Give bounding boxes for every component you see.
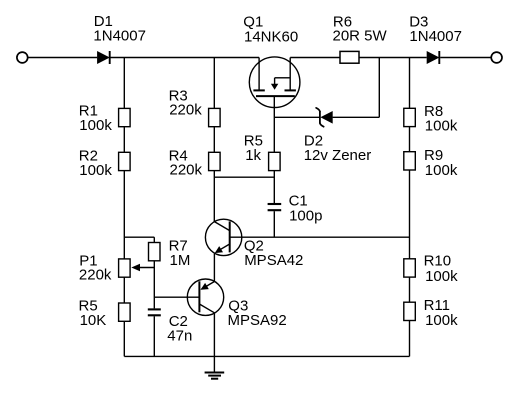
resistor R8: [404, 108, 416, 126]
diode D3: [427, 51, 440, 64]
resistor R3: [209, 108, 221, 126]
resistor R1: [119, 108, 131, 126]
svg-text:100k: 100k: [79, 117, 112, 134]
svg-text:100k: 100k: [79, 162, 112, 179]
capacitor C1: [268, 204, 282, 210]
resistor R7: [149, 243, 161, 261]
svg-text:MPSA92: MPSA92: [228, 312, 287, 329]
bottom rail wire: [124, 355, 409, 357]
svg-text:10K: 10K: [80, 312, 107, 329]
svg-text:220k: 220k: [79, 267, 112, 284]
wire rail to left column: [123, 58, 125, 109]
wire D2 anode to riser: [333, 116, 380, 118]
svg-text:12v Zener: 12v Zener: [304, 147, 372, 164]
wiper wire P1: [138, 267, 154, 269]
svg-text:20R 5W: 20R 5W: [333, 28, 388, 45]
resistor R11: [404, 302, 416, 320]
wire Q2 emitter to Q3 emitter: [213, 254, 215, 282]
svg-text:100k: 100k: [425, 268, 458, 285]
zener diode D2: [316, 108, 333, 127]
resistor R10: [404, 259, 416, 277]
resistor R9: [404, 152, 416, 170]
wire rail to right column: [409, 58, 411, 109]
wire C1 to base wire: [273, 211, 275, 237]
svg-text:MPSA42: MPSA42: [244, 252, 303, 269]
wire R4 to Q2 collector: [213, 171, 215, 222]
svg-text:1N4007: 1N4007: [93, 27, 146, 44]
wire R7 top: [153, 237, 155, 242]
wiper arrow P1: [131, 264, 140, 271]
wire P1 to R5b: [123, 277, 125, 303]
wire Q1 gate down: [273, 96, 275, 152]
wire R2 down to P1: [123, 171, 125, 259]
wire R7 to C2: [153, 261, 155, 309]
wire junction R4-R5: [214, 176, 274, 178]
svg-text:14NK60: 14NK60: [244, 28, 298, 45]
capacitor C2: [148, 309, 161, 315]
wire R9 down to R10: [409, 170, 411, 259]
transistor Q2: [205, 219, 241, 255]
input terminal: [17, 52, 28, 63]
wire R8 to R9: [409, 127, 411, 152]
svg-text:1k: 1k: [245, 147, 261, 164]
wire Q1 source node to D2 cathode: [274, 116, 319, 118]
wire Q1 to R6: [290, 57, 340, 59]
svg-text:1N4007: 1N4007: [409, 28, 462, 45]
ground: [205, 356, 225, 378]
wire R1 to R2: [123, 127, 125, 153]
wire C2 to bottom rail: [153, 316, 155, 356]
svg-text:47n: 47n: [167, 328, 192, 345]
transistor Q3: [187, 279, 223, 315]
wire R10 to R11: [409, 277, 411, 302]
potentiometer P1: [119, 259, 131, 277]
wire R5b to bottom rail: [123, 321, 125, 356]
wire R5 to C1: [273, 171, 275, 203]
resistor R4: [209, 152, 221, 170]
svg-text:100k: 100k: [425, 118, 458, 135]
svg-text:100k: 100k: [425, 162, 458, 179]
wire D1 to Q1: [110, 57, 259, 59]
mosfet Q1: [249, 57, 300, 108]
wire R11 to bottom rail: [409, 321, 411, 357]
diode D1: [97, 51, 110, 64]
wire Q3 collector to bottom rail: [213, 313, 215, 357]
output terminal: [491, 52, 502, 63]
resistor R6: [340, 51, 359, 63]
resistor R2: [119, 152, 131, 170]
svg-text:100k: 100k: [425, 312, 458, 329]
wire R3 to R4: [213, 127, 215, 153]
svg-text:100p: 100p: [289, 207, 322, 224]
wire left column to R7: [124, 236, 154, 238]
svg-text:220k: 220k: [169, 102, 202, 119]
resistor R5 10K: [119, 303, 131, 321]
svg-text:1M: 1M: [170, 252, 191, 269]
wire rail to D2 riser: [378, 58, 380, 118]
wire R6 to D3: [359, 57, 427, 59]
wire D3 to output: [440, 57, 491, 59]
resistor R5 1k: [269, 152, 281, 170]
wire base Q2 horizontal: [230, 236, 410, 238]
svg-text:220k: 220k: [170, 161, 203, 178]
wire input to D1: [28, 57, 98, 59]
wire rail to R3: [213, 58, 215, 109]
wire Q3 base: [154, 296, 199, 298]
